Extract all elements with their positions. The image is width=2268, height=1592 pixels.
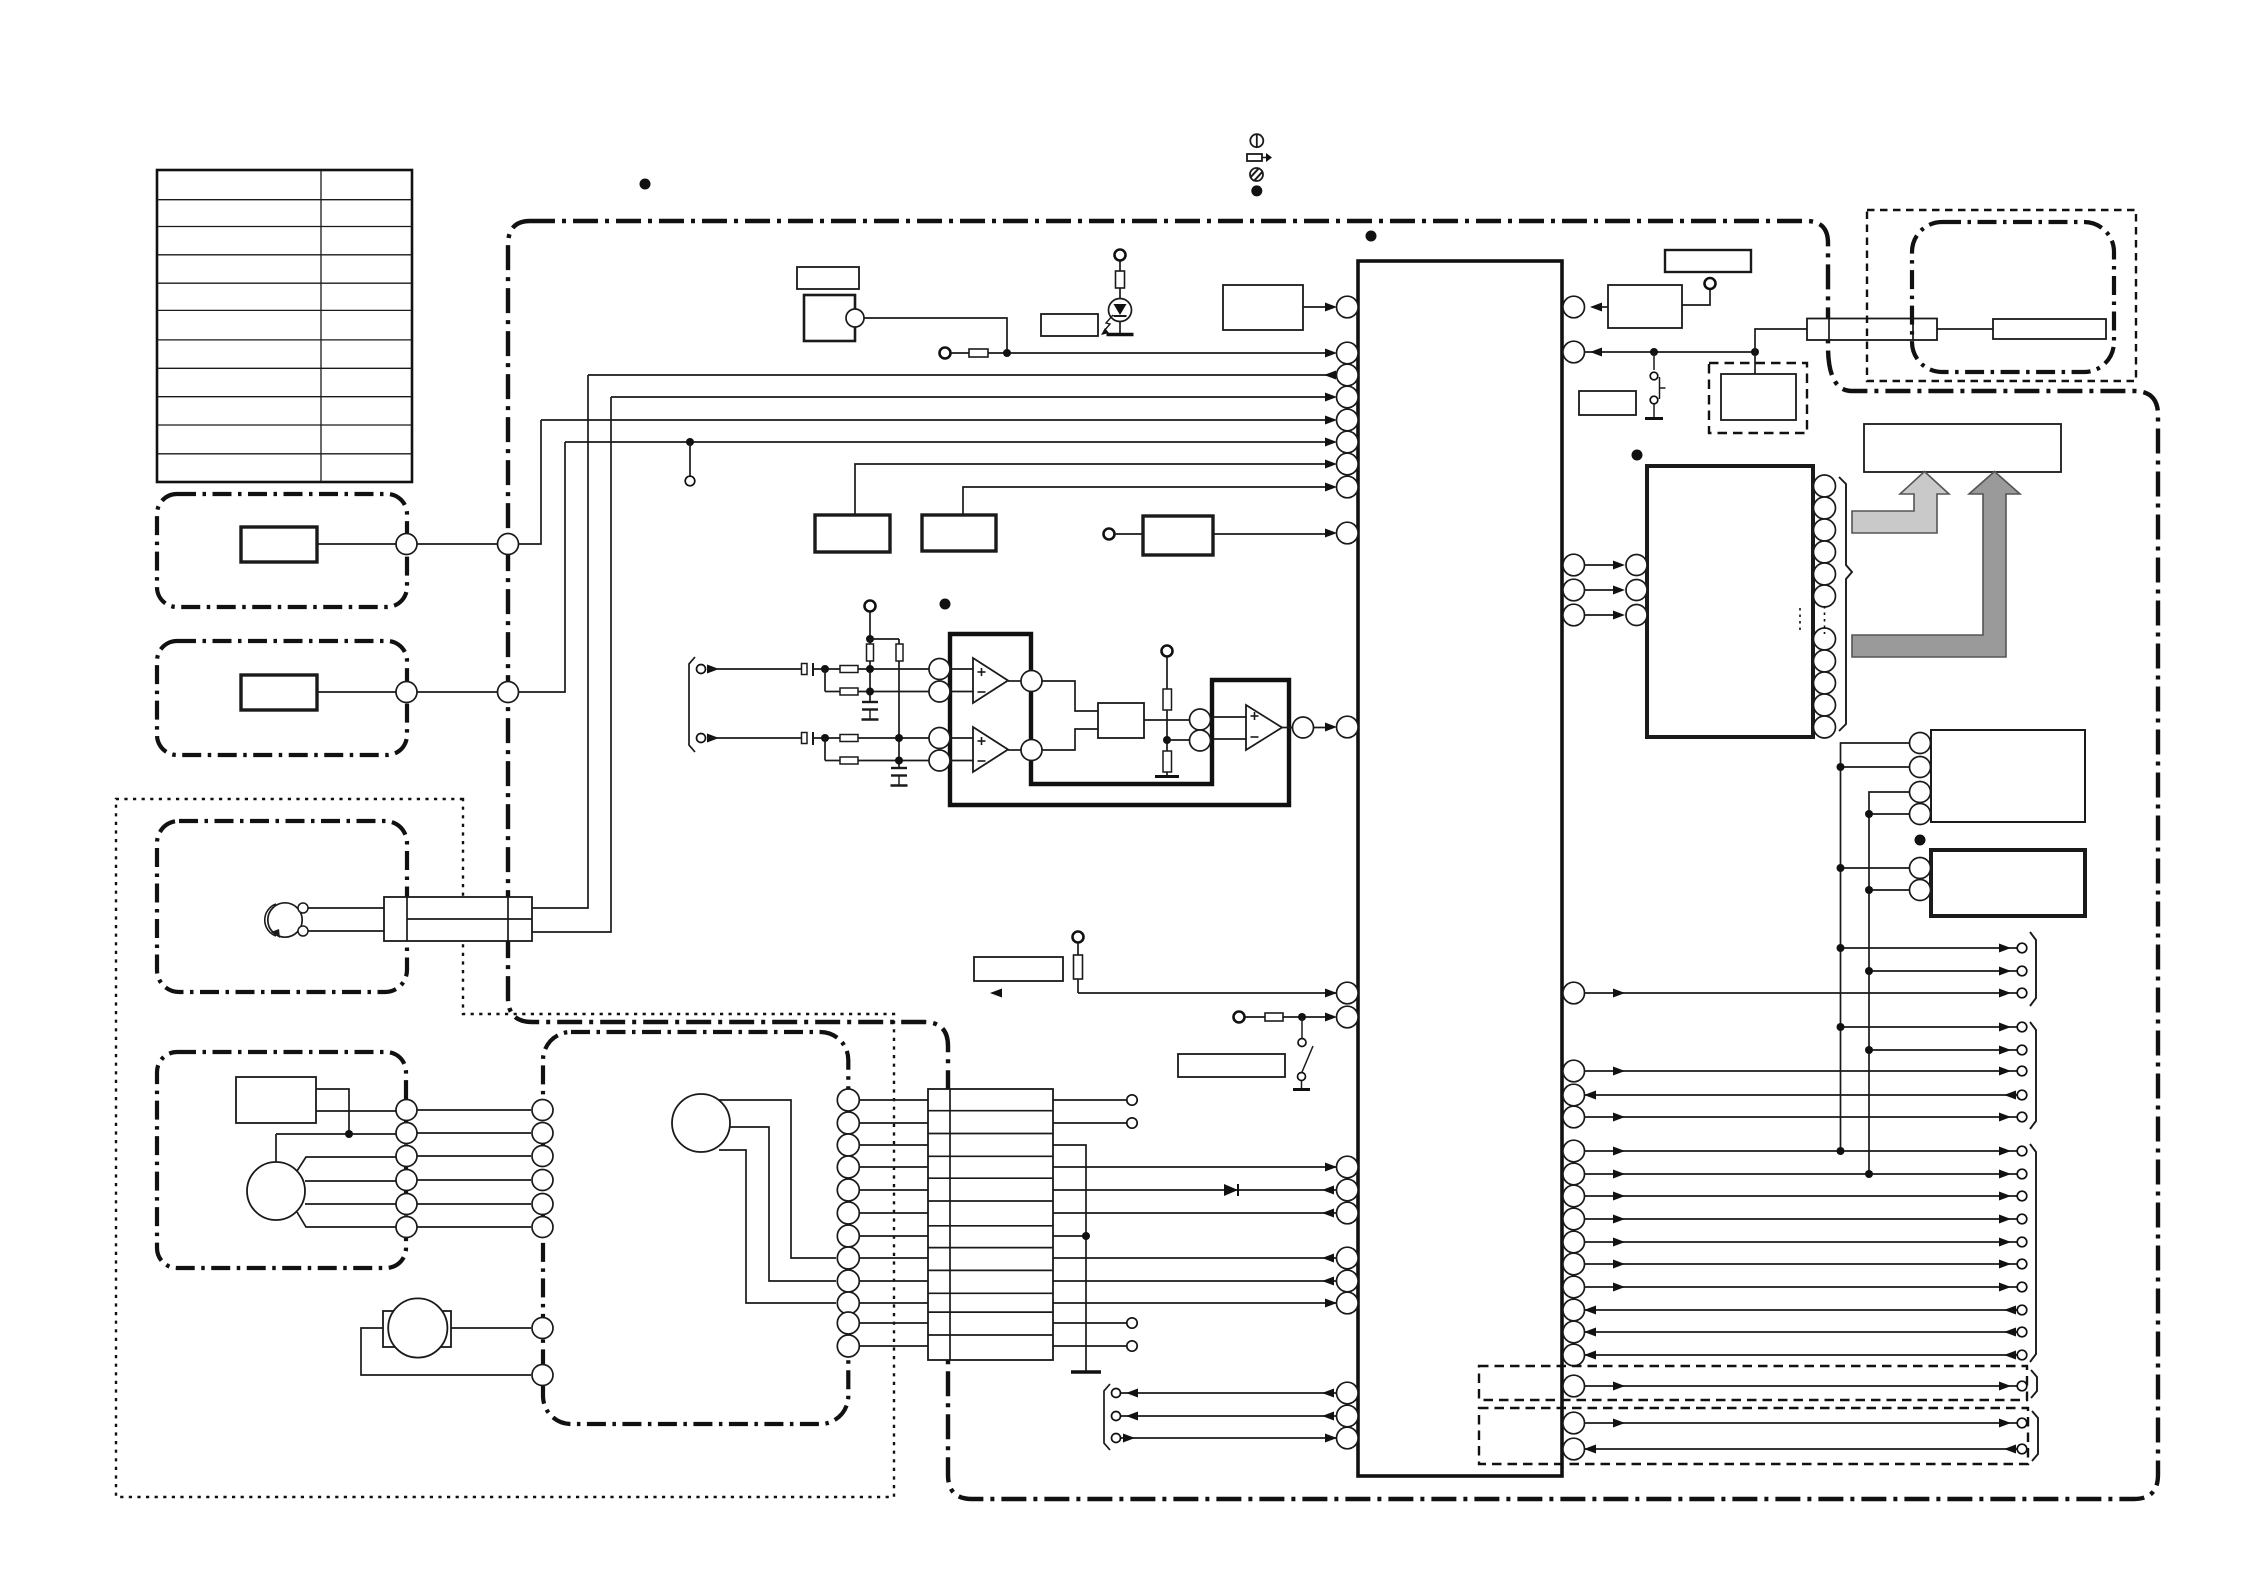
lamp LP1: [265, 903, 308, 938]
terminal: [1127, 1095, 1137, 1105]
main board dash-dot boundary: [508, 221, 2158, 1499]
ground: [1155, 775, 1179, 778]
block label switch: [1178, 1054, 1285, 1077]
wire: [719, 1150, 836, 1303]
wire: [532, 375, 588, 908]
wire: [858, 737, 929, 739]
signal row: [1841, 947, 2017, 949]
terminal: [697, 665, 706, 674]
wire: [1053, 1189, 1337, 1191]
wire: [1682, 289, 1710, 305]
wire: [1937, 328, 1993, 330]
arrow: [1325, 438, 1337, 447]
junction: [821, 665, 829, 673]
module mda block: [1931, 850, 2085, 916]
battery block: [1721, 374, 1796, 420]
wire: [1212, 716, 1246, 718]
terminal: [940, 348, 951, 359]
brace: [1839, 477, 1852, 731]
dotted box remote: [1867, 210, 2136, 381]
wire: [1869, 889, 1910, 891]
loading motor M2: [388, 1298, 447, 1357]
junction: [1865, 886, 1873, 894]
photo arrow: [1104, 315, 1113, 331]
arrow: [1322, 1389, 1334, 1398]
arrow: [1325, 989, 1337, 998]
arrow: [1322, 1277, 1334, 1286]
loading motor bracket: [383, 1311, 451, 1347]
legend icon dot: [1251, 185, 1262, 196]
resistor: [896, 644, 903, 661]
wire: [813, 737, 840, 739]
signal row: [1584, 1173, 2017, 1175]
wire: [1077, 943, 1079, 955]
cap to gnd 2: [891, 767, 907, 769]
module fluorescent driver: [1647, 466, 1813, 737]
signal row: [1869, 970, 2017, 972]
terminal: [1705, 278, 1716, 289]
wire: [1119, 322, 1121, 334]
legend icon connector: [1247, 154, 1262, 161]
junction: [866, 665, 874, 673]
block to pin 307: [1223, 285, 1303, 330]
wire: [1167, 739, 1189, 741]
wire: [1053, 1302, 1337, 1304]
wire: [869, 612, 871, 639]
junction: [1082, 1232, 1090, 1240]
wire: [1053, 1166, 1337, 1168]
junction: [1837, 1147, 1845, 1155]
junction: [1650, 348, 1658, 356]
input bracket: [689, 657, 695, 752]
pin circle: [1293, 717, 1314, 738]
arrow: [1590, 303, 1602, 312]
cap C2: [802, 733, 808, 744]
dash-dot box capstan motor unit: [157, 1052, 406, 1268]
wire: [689, 442, 691, 476]
block reset: [1143, 516, 1213, 555]
remote sensor bar: [1993, 319, 2106, 339]
pin circle: [1190, 709, 1211, 730]
wire: [824, 738, 826, 761]
wire: [858, 668, 929, 670]
diode D1: [1224, 1184, 1238, 1196]
arrow: [1322, 1412, 1334, 1421]
block label: [974, 957, 1063, 981]
ground: [1107, 333, 1134, 337]
junction: [1865, 810, 1873, 818]
block battery detect: [1608, 285, 1682, 328]
block label S1: [1579, 391, 1636, 415]
wire: [519, 420, 542, 544]
arrow: [1126, 1412, 1138, 1421]
wire: [417, 691, 498, 693]
resistor: [1163, 689, 1172, 710]
IC right pin circles: [1563, 296, 1585, 1460]
arrow: [1325, 1163, 1337, 1172]
signal row: [1584, 1385, 2017, 1387]
terminal: [1127, 1341, 1137, 1351]
terminal: [1127, 1118, 1137, 1128]
arrow: [1325, 723, 1337, 732]
signal row: [1584, 1354, 2017, 1356]
wire riser to connector: [1755, 329, 1807, 352]
legend icon hatched: [1250, 168, 1263, 181]
wire: [519, 442, 566, 692]
wire: [858, 760, 929, 762]
node on boundary: [498, 682, 519, 703]
signal row: [1584, 1150, 2017, 1152]
wire: [276, 1133, 396, 1135]
signal row: [1584, 1309, 2017, 1311]
wire: [1119, 288, 1121, 299]
wire: [1869, 813, 1910, 815]
wire: [707, 668, 802, 670]
dash-dot box sensor 2: [157, 641, 407, 755]
wire: [1841, 766, 1910, 768]
pin circle: [396, 534, 417, 555]
cap to gnd: [862, 701, 878, 703]
wire: [1144, 719, 1189, 721]
dotted deck boundary: [116, 799, 894, 1497]
wire: [870, 638, 899, 640]
junction: [895, 757, 903, 765]
wire: [308, 930, 384, 932]
wire: [1119, 261, 1121, 271]
junction: [1865, 1170, 1873, 1178]
signal row: [1584, 1263, 2017, 1265]
junction: [866, 688, 874, 696]
module input rows: [1584, 555, 1647, 626]
wire: [1053, 1212, 1337, 1214]
signal row: [1584, 1286, 2017, 1288]
junction: [1751, 348, 1759, 356]
op-amp U2B: [973, 727, 1008, 772]
wire: [988, 352, 1330, 354]
wire: [1245, 1016, 1265, 1018]
wire: [1008, 749, 1021, 751]
wire row 352: [1584, 351, 1755, 353]
wire: [417, 543, 498, 545]
bus 2: [1869, 792, 1910, 1174]
wire: [1282, 727, 1292, 729]
wire: [898, 661, 900, 768]
block label 2: [1041, 314, 1098, 336]
parts table: [157, 170, 412, 482]
wire: [1053, 1099, 1127, 1101]
wire: [1314, 727, 1330, 729]
node on boundary: [498, 534, 519, 555]
wire row 420: [541, 419, 1330, 421]
terminal: [1073, 932, 1084, 943]
page ref dot: [1915, 835, 1926, 846]
brace: [2030, 932, 2036, 1006]
signal row: [1841, 1026, 2017, 1028]
resistor: [867, 644, 874, 661]
wire: [1166, 710, 1168, 751]
dashed box option 2: [1479, 1408, 2028, 1464]
signal row: [1584, 1241, 2017, 1243]
wire: [361, 1328, 531, 1375]
arrow: [1322, 1209, 1334, 1218]
junction: [1163, 736, 1171, 744]
wire: [1283, 1016, 1330, 1018]
switch S2: [1293, 1017, 1313, 1090]
wire: [1053, 1345, 1127, 1347]
servo block pins: [1910, 733, 1931, 825]
resistor R2: [969, 349, 988, 357]
wire: [963, 487, 1330, 515]
wire: [730, 1127, 836, 1281]
wire: [1115, 533, 1143, 535]
page ref dot: [940, 599, 951, 610]
input bracket 2: [1104, 1384, 1110, 1450]
capstan driver block: [236, 1077, 316, 1123]
mda block pins: [1910, 858, 1931, 901]
junction: [866, 635, 874, 643]
block arrow dark: [1852, 472, 2020, 658]
terminal: [1127, 1318, 1137, 1328]
wire: [950, 691, 973, 693]
dashed continuation: [1799, 608, 1801, 632]
wire: [719, 1100, 836, 1258]
wire: [1754, 352, 1756, 374]
terminal: [1112, 1434, 1121, 1443]
resistor: [840, 735, 858, 742]
cap C1: [802, 664, 808, 675]
IC left pin circles: [1337, 296, 1359, 1449]
dash-dot box remote unit: [1912, 222, 2114, 372]
dashed box battery: [1709, 363, 1807, 433]
resistor R3: [1116, 271, 1125, 288]
arrow: [1325, 460, 1337, 469]
wire: [950, 737, 973, 739]
legend icon screw: [1250, 134, 1263, 147]
pin circle: [1021, 671, 1042, 692]
brace: [2032, 1411, 2038, 1461]
wire: [305, 1203, 396, 1205]
switch S1: [1645, 352, 1666, 419]
transformer pin column: [1814, 475, 1836, 738]
terminal: [1112, 1389, 1121, 1398]
arrow: [1325, 303, 1337, 312]
pin circle: [396, 682, 417, 703]
wire: [275, 1134, 277, 1162]
wire: [1078, 992, 1337, 994]
dashed box option 1: [1479, 1366, 2027, 1400]
arrow: [1325, 1434, 1337, 1443]
junction: [1003, 349, 1011, 357]
dash-dot box mechanism unit: [543, 1032, 848, 1424]
wire row 397: [611, 396, 1330, 398]
block mixer: [1098, 703, 1144, 738]
wire: [1053, 1235, 1086, 1237]
wire: [1042, 729, 1098, 750]
wire: [1053, 1145, 1086, 1371]
arrow: [990, 989, 1002, 998]
block arrow light: [1852, 472, 1949, 534]
wire row 375: [588, 374, 1337, 376]
arrow: [1590, 348, 1602, 357]
arrow: [1322, 1254, 1334, 1263]
wire: [1212, 738, 1246, 740]
arrow: [1325, 416, 1337, 425]
bus 1: [1841, 743, 1910, 1151]
ribbon connector CN3: [1807, 319, 1937, 341]
dash-dot box lamp unit: [157, 821, 407, 992]
junction: [686, 438, 694, 446]
arrow: [1126, 1389, 1138, 1398]
wires motor to mech: [417, 1110, 531, 1227]
wire: [316, 1110, 396, 1112]
sensor square block: [804, 295, 855, 341]
signal row: [1584, 1070, 2017, 1072]
wire: [316, 1089, 349, 1134]
signal row: [1584, 1448, 2017, 1450]
wires mech to board connector: [859, 1100, 928, 1346]
terminal: [865, 601, 876, 612]
signal row: [1584, 1094, 2017, 1096]
wire: [1303, 306, 1330, 308]
junction: [1837, 864, 1845, 872]
wire: [858, 691, 929, 693]
arrow: [1325, 1013, 1337, 1022]
connector pins mech side: [532, 1100, 553, 1238]
wire: [1008, 680, 1021, 682]
wire: [1077, 979, 1079, 993]
junction: [1837, 763, 1845, 771]
junction: [345, 1130, 353, 1138]
brace: [2031, 1370, 2037, 1398]
block small label: [797, 267, 859, 289]
terminal: [1234, 1012, 1245, 1023]
wire: [451, 1327, 531, 1329]
wire: [707, 737, 802, 739]
wire: [1213, 533, 1330, 535]
wire: [864, 318, 1007, 353]
arrow: [707, 665, 719, 674]
arrow: [1325, 1299, 1337, 1308]
pin circle: [846, 309, 864, 327]
arrow: [1325, 483, 1337, 492]
wire: [1121, 1415, 1337, 1417]
resistor: [840, 666, 858, 673]
resistor: [840, 757, 858, 764]
IC U1 system control: [1358, 261, 1562, 1476]
module servo block: [1931, 730, 2085, 822]
wire: [532, 397, 611, 932]
wire: [950, 668, 973, 670]
wire: [951, 352, 969, 354]
wire: [869, 639, 871, 644]
signal row: [1584, 1195, 2017, 1197]
signal row: [1584, 1116, 2017, 1118]
wire: [1042, 681, 1098, 711]
block label top: [1665, 250, 1751, 272]
wire: [1053, 1322, 1127, 1324]
wire: [813, 668, 840, 670]
arrow: [1325, 393, 1337, 402]
op-amp U2A: [973, 658, 1008, 703]
resistor: [1265, 1013, 1283, 1021]
wire: [297, 1212, 396, 1227]
wire: [1841, 867, 1910, 869]
signal row: [1869, 1049, 2017, 1051]
resistor: [1163, 751, 1172, 772]
arrow: [1322, 1186, 1334, 1195]
pin circle: [532, 1318, 553, 1339]
wire: [855, 464, 1330, 515]
LED D2: [1109, 299, 1132, 322]
wire: [317, 691, 396, 693]
wire: [898, 639, 900, 644]
wire: [1121, 1437, 1337, 1439]
wire: [1166, 657, 1168, 689]
page ref dot: [1632, 450, 1643, 461]
wire: [824, 669, 826, 692]
wire: [1121, 1392, 1337, 1394]
wire: [869, 661, 871, 702]
block oscillator 1: [815, 515, 890, 552]
cable connector CN-lamp: [384, 897, 532, 941]
terminal: [1115, 250, 1126, 261]
wire: [1053, 1122, 1127, 1124]
wire: [308, 907, 384, 909]
arrow: [1325, 529, 1337, 538]
brace: [2030, 1144, 2036, 1362]
wire: [825, 760, 840, 762]
terminal: [1112, 1412, 1121, 1421]
arrow: [1123, 1434, 1135, 1443]
junction: [821, 734, 829, 742]
pin circle: [1021, 740, 1042, 761]
signal row: [1584, 992, 2017, 994]
sensor 1 block: [241, 527, 317, 562]
dash-dot box sensor 1: [157, 494, 407, 607]
arrow: [1325, 349, 1337, 358]
block oscillator 2: [922, 515, 996, 551]
wire: [1166, 772, 1168, 775]
page ref dot: [1366, 231, 1377, 242]
signal row: [1584, 1331, 2017, 1333]
junction: [1298, 1013, 1306, 1021]
terminal: [1104, 529, 1115, 540]
pin circle: [532, 1365, 553, 1386]
wire: [297, 1157, 396, 1171]
arrow: [707, 734, 719, 743]
wire: [305, 1180, 396, 1182]
brace: [2030, 1022, 2036, 1129]
page ref dot: [640, 179, 651, 190]
junction: [895, 734, 903, 742]
wire: [317, 543, 396, 545]
wire: [1053, 1257, 1337, 1259]
signal row: [1584, 1422, 2017, 1424]
arrow: [1324, 371, 1336, 380]
resistor: [1074, 955, 1083, 979]
wire row 442: [565, 441, 1330, 443]
wide block display: [1864, 424, 2061, 472]
wire: [1596, 306, 1608, 308]
head drum: [672, 1094, 730, 1152]
resistor: [840, 688, 858, 695]
op-amp block outline: [950, 634, 1289, 805]
wire: [950, 760, 973, 762]
terminal: [685, 476, 695, 486]
board connector ladder CN2: [928, 1089, 1053, 1360]
sensor 2 block: [241, 675, 317, 710]
mech connector pin column: [837, 1089, 859, 1357]
